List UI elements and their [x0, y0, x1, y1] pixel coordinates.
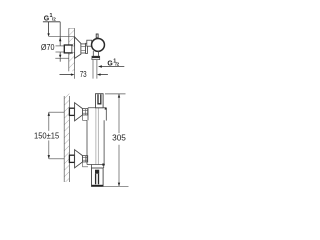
svg-text:G: G	[107, 59, 112, 68]
svg-text:73: 73	[80, 70, 87, 79]
svg-text:Ø70: Ø70	[41, 42, 55, 52]
svg-text:150±15: 150±15	[34, 132, 60, 141]
svg-text:G: G	[44, 14, 49, 23]
svg-text:/2: /2	[115, 62, 119, 67]
svg-text:/2: /2	[52, 17, 56, 22]
svg-text:305: 305	[112, 133, 126, 143]
